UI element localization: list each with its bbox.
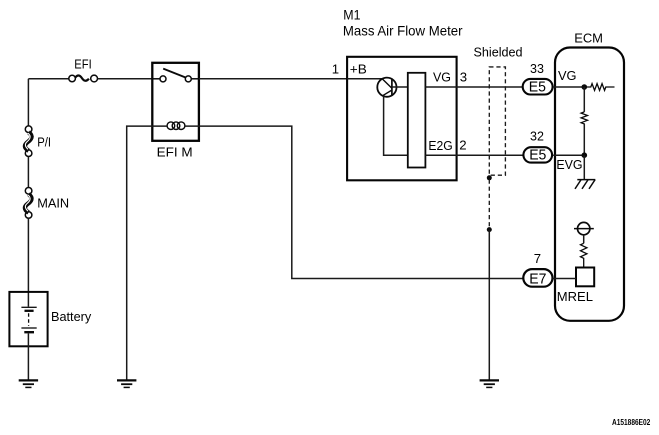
svg-text:E7: E7 (529, 271, 546, 287)
wire VG junction down (583, 87, 585, 112)
M1 box (347, 57, 457, 181)
svg-text:Shielded: Shielded (474, 44, 523, 59)
svg-text:A151886E02: A151886E02 (612, 418, 651, 427)
svg-text:E2G: E2G (428, 138, 452, 153)
junction VG (582, 84, 588, 90)
svg-text:M1: M1 (343, 8, 360, 23)
svg-text:E5: E5 (529, 148, 546, 164)
connector E5 pin 32 (523, 147, 552, 162)
wire VG to E5-33 (425, 86, 523, 88)
chassis ground EVG (575, 180, 595, 189)
wire battery to ground (27, 334, 29, 380)
svg-text:VG: VG (433, 70, 451, 85)
resistor vertical MREL (581, 243, 587, 267)
svg-text:33: 33 (530, 61, 544, 76)
wire P/I to MAIN (27, 157, 29, 188)
svg-text:+B: +B (350, 62, 367, 77)
wire E5-32 to junction (553, 154, 584, 156)
relay switch (152, 69, 199, 82)
wire relay to M1 (199, 78, 347, 80)
wire MAIN to battery (27, 218, 29, 306)
svg-text:Battery: Battery (51, 309, 92, 324)
resistor vertical VG-EVG (581, 112, 587, 125)
wire transistor emitter down to E2G row (384, 96, 408, 155)
sensing element rectangle (408, 73, 426, 168)
fusible link P/I (25, 126, 32, 157)
svg-text:VG: VG (558, 68, 577, 83)
MREL driver square (576, 268, 594, 287)
svg-text:EVG: EVG (556, 157, 582, 172)
shield dashed drain (488, 180, 490, 230)
switch symbol above MREL (574, 222, 594, 234)
svg-text:1: 1 (332, 61, 339, 76)
fuse EFI (69, 75, 98, 82)
svg-text:MAIN: MAIN (37, 196, 69, 211)
shield junction dot lower (487, 227, 492, 232)
svg-text:P/I: P/I (37, 135, 51, 150)
svg-text:EFI: EFI (74, 57, 91, 72)
relay coil (167, 122, 185, 130)
wire left vertical from corner to P/I (27, 79, 29, 126)
svg-text:32: 32 (530, 129, 544, 144)
svg-text:MREL: MREL (557, 289, 593, 304)
wire resistor to EVG junction (583, 124, 585, 155)
wire coil right down to E7 row (184, 126, 523, 278)
wire +B to transistor (347, 78, 382, 80)
wire E2G to E5-32 (425, 154, 524, 156)
ground shield (480, 380, 499, 387)
ECM box (555, 48, 624, 321)
relay EFI M box (152, 63, 199, 141)
resistor horizontal VG (584, 84, 614, 91)
svg-text:3: 3 (460, 70, 467, 85)
wire EVG junction down (583, 155, 585, 179)
shield junction dot upper (487, 175, 492, 180)
svg-text:EFI M: EFI M (157, 144, 193, 159)
ground battery (19, 380, 38, 387)
svg-text:7: 7 (534, 251, 541, 266)
svg-text:Mass Air Flow Meter: Mass Air Flow Meter (343, 22, 463, 38)
fusible link MAIN (25, 188, 32, 219)
wire switch to resistor (583, 235, 585, 244)
wire E7 to MREL square (553, 278, 577, 280)
ground relay (117, 380, 136, 387)
wire transistor base to element (392, 86, 408, 88)
junction EVG (582, 152, 588, 158)
svg-text:2: 2 (459, 138, 466, 153)
wire top main left segment (28, 78, 68, 80)
transistor MAF element (377, 78, 396, 97)
wire fuse to relay (98, 78, 153, 80)
shield dashed box (489, 67, 505, 175)
wire E5-33 to junction (554, 86, 585, 88)
wire coil left through box to ground leg (127, 126, 168, 380)
battery plates (21, 307, 36, 332)
svg-text:ECM: ECM (574, 31, 603, 46)
connector E7 (523, 269, 552, 287)
battery box (9, 292, 47, 346)
connector E5 pin 33 (523, 79, 553, 95)
svg-text:E5: E5 (529, 80, 546, 96)
wire shield drain to ground (488, 230, 490, 380)
